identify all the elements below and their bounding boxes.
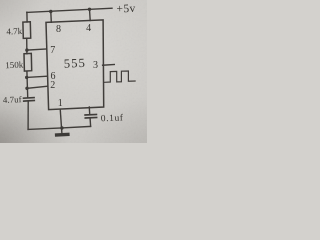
- wire top +5v rail: [27, 8, 112, 12]
- svg-text:4.7uf: 4.7uf: [3, 94, 22, 105]
- node pin6 junction: [25, 76, 28, 79]
- svg-text:1: 1: [58, 98, 63, 109]
- op-amp U1 555 body: [46, 20, 104, 110]
- wire C2 bottom: [89, 118, 92, 126]
- svg-text:4.7k: 4.7k: [6, 26, 23, 37]
- node pin1 ground junction: [60, 126, 63, 129]
- wire C1 bottom to ground rail: [27, 101, 29, 129]
- node pin8 top rail junction: [49, 10, 52, 13]
- wire bottom rail: [28, 126, 91, 129]
- node pin7 junction: [25, 48, 28, 51]
- svg-text:555: 555: [64, 56, 87, 71]
- square wave symbol: [105, 71, 136, 82]
- wire R1 bottom to R2 top: [26, 38, 28, 54]
- svg-text:2: 2: [50, 80, 55, 91]
- capacitor C2 0.1uf plates: [85, 114, 96, 117]
- resistor R1 4.7k body: [23, 22, 31, 39]
- wire left drop to R1: [26, 12, 28, 22]
- wire C2 top: [88, 107, 90, 114]
- resistor R2 150k body: [24, 53, 32, 71]
- wire to pin 6: [27, 76, 47, 77]
- wire to pin 7: [27, 49, 46, 50]
- wire pin 4: [89, 9, 92, 20]
- svg-text:7: 7: [50, 45, 55, 56]
- svg-text:4: 4: [86, 23, 91, 34]
- capacitor C1 4.7uf plates: [24, 97, 35, 100]
- node pin2 junction: [25, 87, 28, 90]
- svg-text:150k: 150k: [5, 60, 24, 71]
- wire to pin 2: [27, 86, 47, 88]
- wire R2 bottom down: [26, 71, 29, 97]
- svg-text:3: 3: [93, 60, 98, 71]
- ground: [55, 133, 70, 137]
- svg-text:0.1uf: 0.1uf: [101, 113, 124, 125]
- svg-text:+5v: +5v: [116, 3, 136, 16]
- node pin4 top rail junction: [88, 8, 91, 11]
- svg-text:8: 8: [56, 24, 61, 35]
- wire pin 8: [50, 12, 53, 23]
- wire pin 3 output: [103, 64, 115, 67]
- wire pin 1 down: [60, 110, 62, 133]
